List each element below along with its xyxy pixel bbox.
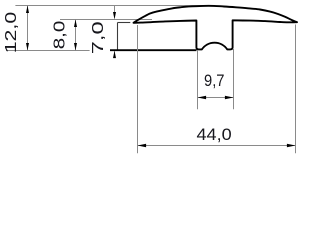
dimension 9,7 line: [198, 97, 234, 99]
svg-text:12,0: 12,0: [3, 12, 20, 54]
dimension 44,0 arrow left: [138, 144, 147, 148]
svg-text:7,0: 7,0: [90, 21, 107, 54]
floor panel left broken edge: [117, 23, 119, 50]
svg-text:8,0: 8,0: [52, 21, 69, 50]
dimension 12,0 arrow up: [26, 6, 29, 14]
extension line 44,0 left: [137, 25, 139, 153]
floor panel top edge: [118, 22, 131, 24]
extension line bottom level (for 12,0 / 8,0): [6, 50, 90, 52]
extension line 44,0 right: [295, 25, 297, 154]
dimension 44,0 line: [138, 145, 296, 147]
extension line 9,7 right: [233, 49, 235, 109]
dimension 8,0 arrow down: [74, 43, 77, 51]
extension line top (cap apex level, for 12,0): [15, 5, 210, 7]
floor panel bottom edge: [110, 49, 197, 51]
dimension 8,0 arrow up: [74, 20, 77, 28]
dimension 9,7 arrow left: [198, 96, 207, 100]
extension line 9,7 left: [197, 50, 199, 109]
dimension 9,7 arrow right: [225, 96, 234, 100]
dimension 7,0 upper leader with outside arrow pointing down: [114, 6, 116, 13]
dimension 8,0 line: [75, 20, 77, 51]
svg-text:44,0: 44,0: [197, 125, 232, 144]
extension line cap-underside level (for 8,0 / 7,0): [60, 19, 152, 21]
dimension 7,0 lower leader with outside arrow pointing up: [114, 52, 116, 59]
dimension 12,0 arrow down: [26, 43, 29, 51]
dimension 44,0 arrow right: [287, 144, 296, 148]
dimension 12,0 line: [27, 6, 29, 51]
T-profile outline: cap with stem and relief groove: [134, 6, 298, 50]
svg-text:9,7: 9,7: [204, 71, 225, 90]
